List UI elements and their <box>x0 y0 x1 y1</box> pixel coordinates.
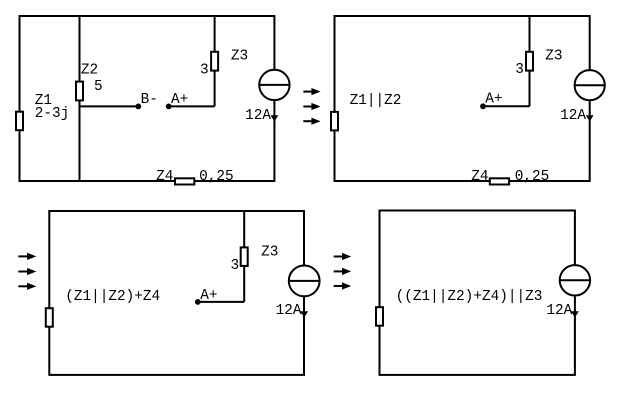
arrow 3 of transform set 2 <box>18 285 27 287</box>
svg-text:12A: 12A <box>276 303 302 319</box>
transformation arrows set 2 <box>18 253 36 290</box>
resistor Z4 (C2) <box>490 178 509 184</box>
current source I3 <box>289 266 320 297</box>
svg-text:12A: 12A <box>546 303 572 319</box>
wire C2 node A to Z3 branch <box>483 105 530 107</box>
svg-text:Z4: Z4 <box>156 169 173 185</box>
resistor ((Z1||Z2)+Z4)||Z3 <box>376 307 383 326</box>
node A+ dot (C3) <box>195 299 201 305</box>
svg-text:A+: A+ <box>171 92 188 108</box>
wire C1 Z3 branch vertical <box>214 16 216 106</box>
wire C3 Z3 branch vertical <box>243 211 245 302</box>
current source I3 arrow <box>300 311 308 317</box>
resistor Z3 (C3) <box>241 247 248 266</box>
svg-text:0,25: 0,25 <box>199 169 234 185</box>
current source I2 <box>575 70 605 100</box>
current source I4 arrow <box>571 311 579 317</box>
resistor Z1 <box>16 112 23 131</box>
svg-text:0,25: 0,25 <box>515 169 550 185</box>
arrow 2 of transform set 1 <box>303 106 312 108</box>
current source I2 arrow <box>586 115 594 121</box>
resistor (Z1||Z2)+Z4 <box>46 308 53 327</box>
svg-text:5: 5 <box>94 79 103 95</box>
resistor Z4 <box>175 178 194 184</box>
svg-text:3: 3 <box>515 62 524 78</box>
svg-text:Z4: Z4 <box>471 169 488 185</box>
svg-text:Z3: Z3 <box>231 49 248 65</box>
wire C1 mid horizontal to node B <box>80 105 139 107</box>
transformation arrows set 1 <box>303 88 320 125</box>
arrow 1 of transform set 1 <box>303 91 312 93</box>
svg-text:12A: 12A <box>245 108 271 124</box>
arrow 3 of transform set 3 <box>334 285 343 287</box>
node A+ dot <box>166 104 172 110</box>
wire C2 Z3 branch vertical <box>529 16 531 106</box>
current source I4 <box>560 265 590 295</box>
resistor Z1||Z2 <box>331 112 338 130</box>
svg-text:((Z1||Z2)+Z4)||Z3: ((Z1||Z2)+Z4)||Z3 <box>396 289 543 305</box>
wire C1 Z2 branch vertical <box>79 16 81 181</box>
transformation arrows set 3 <box>334 253 352 290</box>
current source I1 <box>259 70 289 100</box>
wire C2 outer loop <box>335 16 590 181</box>
resistor Z3 (C2) <box>526 52 533 71</box>
current source I1 arrow <box>271 115 279 121</box>
arrow 2 of transform set 2 <box>18 271 27 273</box>
svg-text:Z3: Z3 <box>261 245 278 261</box>
node B- dot <box>135 104 141 110</box>
wire C3 node A to Z3 branch <box>198 301 244 303</box>
svg-text:3: 3 <box>231 258 240 274</box>
svg-text:A+: A+ <box>200 288 217 304</box>
svg-text:Z1||Z2: Z1||Z2 <box>350 93 402 109</box>
svg-text:A+: A+ <box>485 92 502 108</box>
resistor Z3 <box>211 52 218 71</box>
arrow 3 of transform set 1 <box>303 120 312 122</box>
node A+ dot (C2) <box>480 103 486 109</box>
wire C4 outer loop <box>380 211 575 375</box>
svg-text:(Z1||Z2)+Z4: (Z1||Z2)+Z4 <box>65 289 160 305</box>
svg-text:B-: B- <box>141 92 158 108</box>
wire C1 node A to Z3 branch <box>169 105 215 107</box>
svg-text:Z3: Z3 <box>545 49 562 65</box>
svg-text:3: 3 <box>200 63 209 79</box>
arrow 1 of transform set 2 <box>18 255 27 257</box>
arrow 2 of transform set 3 <box>334 270 343 272</box>
arrow 1 of transform set 3 <box>334 256 343 258</box>
svg-text:Z2: Z2 <box>81 62 98 78</box>
svg-text:2-3j: 2-3j <box>35 106 70 122</box>
resistor Z2 <box>76 82 83 101</box>
wire C3 outer loop <box>49 211 304 375</box>
svg-text:12A: 12A <box>560 108 586 124</box>
wire C1 outer loop <box>20 16 275 181</box>
